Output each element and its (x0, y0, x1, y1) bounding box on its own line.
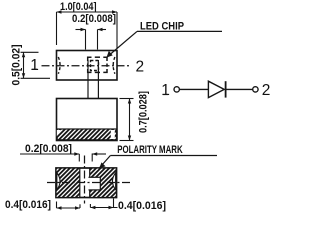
svg-text:2: 2 (135, 59, 144, 76)
dimension 0.5 line (21, 52, 51, 78)
dimension 0.4 right bracket (90, 199, 117, 210)
diode D1 cathode bar (225, 81, 227, 97)
side view left castellation notch (57, 130, 61, 137)
left pad castellation cutout (57, 173, 60, 190)
LED chip inner dashed square (91, 61, 99, 71)
bottom view left terminal pad (hatched) (56, 168, 80, 198)
svg-text:0.4[0.016]: 0.4[0.016] (118, 200, 166, 212)
dimension 0.2 arrows (top) (76, 28, 107, 50)
svg-text:2: 2 (262, 82, 271, 99)
svg-text:0.2[0.008]: 0.2[0.008] (25, 143, 72, 155)
bottom view vertical centerline (84, 156, 86, 204)
svg-text:LED CHIP: LED CHIP (140, 20, 184, 32)
dimension 0.2 leader (bottom) (20, 152, 106, 161)
svg-text:1.0[0.04]: 1.0[0.04] (60, 1, 97, 13)
POLARITY MARK underline (110, 155, 217, 157)
right pad castellation cutout (112, 173, 115, 190)
LED CHIP leader arrow (107, 31, 138, 57)
dimension 0.7 line (120, 99, 134, 141)
top view left castellation (dashed arc) (58, 57, 60, 74)
polarity mark notch (white) (89, 177, 100, 190)
bottom view right terminal pad (hatched) (90, 168, 117, 198)
schematic terminal 2 circle (253, 87, 258, 92)
top view horizontal centerline (42, 65, 132, 67)
bottom view package outline (56, 168, 117, 198)
svg-text:0.5[0.02]: 0.5[0.02] (11, 44, 23, 85)
projection line right (to side view) (97, 60, 99, 99)
svg-text:1: 1 (161, 82, 170, 99)
dimension 1.0 line (57, 10, 118, 48)
diode D1 triangle (208, 81, 224, 97)
top view package outline (57, 51, 118, 81)
side view terminal hatched strip (57, 129, 116, 140)
schematic terminal 1 circle (174, 87, 179, 92)
bottom view horizontal centerline (47, 182, 131, 184)
svg-text:0.7[0.028]: 0.7[0.028] (138, 91, 150, 133)
side view right castellation notch (111, 130, 115, 139)
wire anode (179, 88, 208, 90)
side view package outline (57, 99, 118, 141)
LED chip outer dashed square (88, 57, 107, 72)
POLARITY MARK leader arrow (99, 156, 110, 169)
wire cathode (227, 88, 253, 90)
svg-text:0.2[0.008]: 0.2[0.008] (72, 13, 116, 25)
dimension 0.4 left bracket (57, 202, 81, 210)
top view right castellation (dashed arc) (113, 57, 115, 74)
svg-text:1: 1 (30, 57, 39, 74)
svg-text:0.4[0.016]: 0.4[0.016] (5, 199, 51, 211)
LED CHIP underline (137, 30, 222, 32)
projection line left (to side view) (87, 60, 89, 99)
svg-text:POLARITY MARK: POLARITY MARK (117, 144, 183, 156)
